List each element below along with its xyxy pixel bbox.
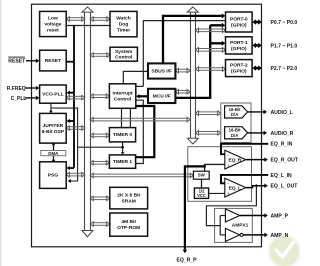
amp region outline — [215, 208, 253, 242]
bus arrow lvr to bus1 — [66, 17, 85, 21]
arrowhead clock into psg — [68, 179, 71, 183]
thick wire interrupt to timer1 — [136, 106, 155, 157]
svg-text:AUDIO_R: AUDIO_R — [271, 131, 294, 137]
arrow reset into psg — [67, 166, 74, 170]
svg-text:VCO-PLL: VCO-PLL — [42, 92, 63, 98]
op-amp EQ_L — [225, 178, 246, 197]
amp input join vertical — [219, 216, 221, 235]
wire eq_l output — [246, 183, 268, 188]
svg-text:+: + — [227, 164, 230, 169]
arrow reset into vco-pll — [67, 91, 74, 95]
wire reset box output — [66, 61, 74, 63]
wire amp_n output — [243, 233, 268, 238]
block vco-pll — [40, 85, 67, 103]
wire vco clock to dsp — [50, 103, 52, 111]
arrowhead sbus line into port-0 — [222, 13, 226, 18]
svg-text:PORT-2: PORT-2 — [230, 63, 248, 69]
svg-text:Interrupt: Interrupt — [113, 91, 133, 97]
svg-text:EQ_L_OUT: EQ_L_OUT — [271, 184, 299, 190]
wire eq vcc to eq_l plus — [208, 192, 225, 194]
svg-text:D/A: D/A — [231, 133, 238, 138]
junction eq_r inverting input — [223, 153, 226, 156]
svg-text:AMP_P: AMP_P — [271, 213, 289, 219]
wire amp input bottom — [220, 234, 225, 236]
wire amp_p output — [240, 213, 268, 218]
svg-text:DMA: DMA — [48, 151, 59, 156]
junction eq_l inverting input — [223, 182, 226, 185]
svg-text:Timer: Timer — [117, 28, 130, 34]
wire eq_r output — [246, 157, 268, 162]
label nRESET with overline — [8, 59, 26, 65]
bus arrow bus1 to bus2 link — [90, 117, 190, 121]
svg-text:voltage: voltage — [44, 22, 61, 28]
bus arrow bus1 to system control — [90, 53, 110, 57]
block timer 0 — [109, 128, 135, 142]
bus arrow bus2 to dac-l — [195, 111, 220, 115]
svg-text:JUPITER: JUPITER — [43, 123, 64, 129]
wire audio_l output — [248, 110, 267, 115]
bus arrow bus2 to port-0 — [195, 28, 225, 32]
eq region outline — [188, 147, 252, 202]
svg-text:P0.7 ~ P0.0: P0.7 ~ P0.0 — [271, 20, 298, 26]
pin arrows port-2 — [252, 65, 261, 70]
wire interrupt control to sbus — [123, 71, 148, 83]
svg-text:RESET: RESET — [45, 58, 61, 64]
block sbus interface — [148, 63, 175, 78]
outer chip boundary — [32, 4, 262, 247]
svg-text:D/A: D/A — [231, 112, 238, 117]
thick wire mcu to port vertical — [175, 25, 210, 98]
block low voltage reset — [40, 11, 67, 36]
bus arrow bus2 to port-2 — [195, 67, 225, 71]
svg-text:(GPIO): (GPIO) — [231, 69, 247, 75]
wire dsp to dma — [52, 143, 55, 151]
bus arrow mcu to bus2 — [175, 90, 190, 94]
bus arrow bus1 to otp-rom — [90, 222, 110, 226]
svg-text:4M Bit: 4M Bit — [121, 219, 136, 225]
block psg — [40, 162, 67, 189]
block timer 1 — [109, 155, 135, 168]
block port-2 gpio — [226, 60, 253, 77]
svg-text:Control: Control — [114, 97, 132, 103]
svg-text:2K X 8 Bit: 2K X 8 Bit — [117, 193, 140, 199]
svg-text:System: System — [115, 49, 133, 55]
wire low-voltage-reset to watchdog — [66, 25, 110, 27]
bus arrow dsp to bus1 — [66, 126, 85, 130]
wire eq_r_in — [221, 144, 268, 154]
svg-text:reset: reset — [47, 27, 59, 33]
block port-0 gpio — [226, 12, 253, 32]
wire c_pll input — [25, 96, 39, 101]
svg-text:Dog: Dog — [119, 22, 129, 28]
svg-text:EQ_L: EQ_L — [229, 185, 241, 190]
op-amp EQ_R — [225, 150, 246, 169]
wire switch to eq vcc — [201, 179, 203, 188]
svg-text:AMP_N: AMP_N — [271, 233, 289, 239]
scan edge artifact left — [0, 0, 2, 266]
bus 2 (right internal data bus) — [187, 7, 198, 144]
bus arrow bus1 to timer0 — [90, 133, 109, 137]
svg-text:Watch: Watch — [116, 16, 131, 22]
amp triangle positive — [225, 209, 239, 222]
wire clock to timer chain — [78, 146, 124, 149]
wire eq_r plus input to switch — [205, 164, 225, 171]
block otp-rom — [110, 213, 148, 236]
svg-text:(GPIO): (GPIO) — [231, 46, 247, 52]
svg-text:R.FREQ: R.FREQ — [7, 86, 26, 92]
wire port-0 thin input line — [143, 21, 225, 87]
svg-text:Control: Control — [115, 55, 133, 61]
svg-text:PSG: PSG — [48, 173, 59, 179]
svg-text:EQ_R_IN: EQ_R_IN — [271, 142, 293, 148]
dac right channel 16-bit D/A — [225, 127, 248, 139]
block eq vcc — [194, 188, 208, 198]
wire r.freq input — [25, 86, 39, 91]
svg-text:SRAM: SRAM — [121, 199, 135, 205]
svg-text:TIMER 1: TIMER 1 — [113, 159, 133, 165]
wire eq_l out to amp input — [206, 186, 256, 226]
arrow mcu line into port-1 — [210, 41, 225, 46]
block reset — [40, 50, 67, 71]
wire reset input — [26, 59, 39, 64]
wire audio_r output — [248, 131, 267, 136]
bus arrow psg to bus1 — [66, 172, 85, 176]
block dma — [41, 151, 66, 156]
block port-1 gpio — [226, 37, 253, 54]
wire amp input top — [220, 215, 225, 217]
block system control — [110, 47, 137, 61]
amp triangle negative — [225, 228, 243, 241]
svg-text:PORT-0: PORT-0 — [230, 17, 248, 23]
arrowhead clock into dsp — [49, 111, 53, 114]
bus arrow bus1 to interrupt — [90, 94, 109, 98]
bus 1 (left internal data bus) — [82, 7, 93, 237]
block sw switch — [193, 171, 209, 179]
svg-text:VCC: VCC — [197, 193, 206, 198]
svg-text:Low: Low — [48, 16, 58, 22]
svg-text:EQ_L_IN: EQ_L_IN — [271, 173, 293, 179]
block sram — [110, 187, 148, 209]
svg-text:8-Bit DSP: 8-Bit DSP — [42, 129, 65, 135]
svg-text:C_PLL: C_PLL — [11, 96, 27, 102]
bus arrow sbus to bus2 — [175, 68, 190, 72]
wire eq_l_in — [221, 175, 268, 183]
block watchdog timer — [110, 11, 137, 36]
junction eq_l output feedback — [255, 184, 258, 187]
svg-text:(GPIO): (GPIO) — [231, 23, 247, 29]
svg-text:16-Bit: 16-Bit — [229, 107, 242, 112]
block jupiter dsp — [40, 113, 67, 143]
svg-text:AMPX1: AMPX1 — [232, 223, 249, 229]
svg-text:16-Bit: 16-Bit — [229, 128, 242, 133]
block interrupt control — [109, 84, 135, 109]
svg-text:P2.7 ~ P2.0: P2.7 ~ P2.0 — [271, 66, 298, 72]
arrow timer0 to timer1 — [121, 142, 125, 155]
wire timer1 to port-0 — [136, 100, 144, 163]
bus arrow bus2 to dac-r — [195, 131, 220, 135]
wire interrupt branch corner — [136, 85, 144, 87]
thick wire sbus to port-0 — [163, 16, 222, 64]
pin arrows port-1 — [252, 43, 261, 48]
bus arrow vco to bus1 — [66, 95, 85, 99]
wire interrupt to timer0 b — [129, 108, 131, 127]
svg-text:EQ_R_P: EQ_R_P — [176, 258, 197, 264]
bus arrow bus1 to eq switch — [90, 173, 193, 177]
wire interrupt to timer0 a — [121, 108, 123, 127]
svg-text:EQ_R: EQ_R — [229, 157, 242, 162]
svg-text:EQ_R_OUT: EQ_R_OUT — [271, 158, 299, 164]
svg-text:SBUS I/F: SBUS I/F — [151, 69, 172, 75]
wire reset distribution vertical — [73, 26, 75, 169]
arrow reset into dsp — [67, 119, 74, 123]
thick arrow mcu to interrupt control — [136, 94, 148, 98]
svg-text:SW: SW — [198, 173, 206, 178]
junction eq_r_p tap — [203, 165, 206, 168]
svg-text:RESET: RESET — [8, 59, 26, 65]
svg-text:OTP-ROM: OTP-ROM — [117, 225, 140, 231]
block mcu interface — [148, 89, 175, 103]
bus arrow bus2 to port-1 — [195, 48, 225, 52]
dac left channel 16-bit D/A — [225, 106, 248, 118]
dac region outline — [221, 103, 251, 143]
bus arrow bus1 to timer1 — [90, 161, 109, 165]
pin arrows port-0 — [252, 19, 261, 24]
arrowhead eq_r_p output — [183, 250, 188, 253]
svg-text:+: + — [227, 192, 230, 197]
svg-text:TIMER 0: TIMER 0 — [113, 132, 133, 138]
svg-text:MCU I/F: MCU I/F — [153, 93, 171, 99]
arrow mcu line into port-0 — [210, 23, 225, 28]
wire dma to psg — [52, 156, 55, 163]
bus arrow bus1 to sram — [90, 196, 110, 200]
thick wire eq_r_p — [185, 166, 205, 249]
svg-text:PORT-1: PORT-1 — [230, 40, 248, 46]
svg-text:P1.7 ~ P1.0: P1.7 ~ P1.0 — [271, 43, 298, 49]
wire vco clock branch to psg — [51, 108, 78, 181]
svg-text:AUDIO_L: AUDIO_L — [271, 110, 293, 116]
bus arrow bus1 to watchdog — [90, 17, 110, 21]
